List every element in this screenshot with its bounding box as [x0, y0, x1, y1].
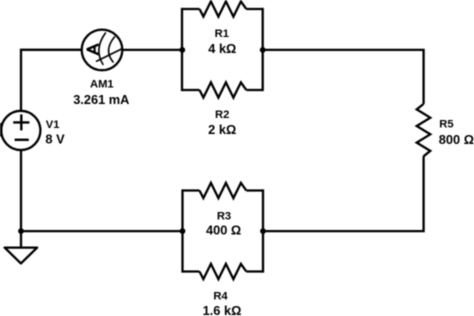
wire R1R2 right node to top-right corner down to R5 top — [263, 50, 424, 104]
ammeter meter arcs — [99, 33, 106, 66]
resistor R4 — [183, 270, 200, 272]
wire R3R4 left node to ground node — [21, 230, 183, 232]
node right of R1R2 — [260, 47, 266, 53]
svg-text:R3: R3 — [217, 211, 231, 223]
voltage source V1 — [1, 111, 40, 150]
svg-text:R5: R5 — [439, 118, 453, 130]
R1R2 left rail — [181, 8, 183, 91]
R3R4 right rail — [262, 189, 264, 272]
ground — [5, 248, 38, 264]
node left of R1R2 — [179, 47, 185, 53]
wire V1 bottom to ground node — [20, 150, 22, 231]
svg-text:400 Ω: 400 Ω — [206, 222, 241, 237]
resistor R1 — [182, 8, 200, 10]
wire top-left (corner) to ammeter — [21, 50, 82, 111]
R1R2 right rail — [262, 8, 264, 91]
svg-text:R1: R1 — [215, 28, 229, 40]
svg-text:8 V: 8 V — [45, 132, 65, 147]
svg-text:1.6 kΩ: 1.6 kΩ — [203, 303, 242, 316]
svg-text:AM1: AM1 — [90, 79, 114, 91]
ammeter AM1 — [82, 30, 123, 71]
resistor R5 — [417, 104, 431, 156]
svg-text:R4: R4 — [213, 290, 228, 302]
wire ground stub — [20, 231, 22, 248]
ammeter letter A — [87, 44, 99, 54]
R3R4 left rail — [181, 189, 183, 272]
svg-text:4 kΩ: 4 kΩ — [208, 41, 236, 56]
node left of R3R4 — [180, 228, 186, 234]
svg-text:2 kΩ: 2 kΩ — [208, 122, 236, 137]
ammeter needle — [96, 49, 123, 62]
svg-text:R2: R2 — [215, 109, 229, 121]
node at ground junction — [18, 228, 24, 234]
node right of R3R4 — [260, 228, 266, 234]
wire R5 bottom to bottom-right corner to R3R4 right node — [263, 156, 424, 231]
svg-text:3.261 mA: 3.261 mA — [73, 92, 129, 107]
svg-text:V1: V1 — [46, 119, 60, 131]
wire ammeter to R1R2 left node — [122, 49, 182, 51]
resistor R3 — [183, 189, 200, 191]
resistor R2 — [182, 89, 200, 91]
cropped symbol at left edge — [0, 123, 3, 137]
svg-text:800 Ω: 800 Ω — [439, 132, 474, 147]
